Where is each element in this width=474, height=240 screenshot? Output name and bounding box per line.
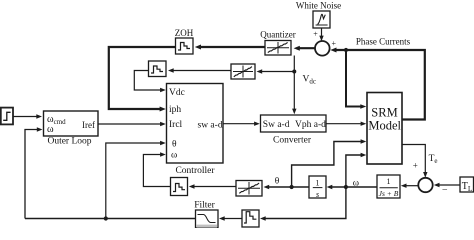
wire Filter to left bus — [25, 218, 196, 220]
junction Vdc tap — [292, 70, 296, 74]
svg-text:1: 1 — [316, 178, 320, 187]
svg-text:Outer Loop: Outer Loop — [47, 137, 91, 147]
svg-text:Js + B: Js + B — [379, 189, 399, 198]
wire bottom bus ZOH3 to Filter — [219, 216, 242, 220]
svg-text:Vdc: Vdc — [169, 88, 185, 98]
wire Q2 to ZOH2 — [168, 68, 231, 72]
wire theta staircase into SRM input3 — [292, 139, 367, 187]
svg-text:Vph a-d: Vph a-d — [295, 120, 326, 130]
wire Q1 to ZOH1 (thick) — [195, 45, 265, 50]
svg-text:sw a-d: sw a-d — [198, 121, 223, 131]
step source block — [1, 108, 13, 125]
wire sum2 to 1/(Js+B) — [401, 184, 419, 188]
block White Noise — [313, 11, 330, 28]
wire Converter Vph a-d to SRM — [326, 122, 366, 126]
wire SRM phase-current output loop (thick) — [330, 48, 425, 120]
svg-text:Phase Currents: Phase Currents — [356, 37, 411, 47]
svg-text:ω: ω — [353, 178, 359, 188]
wire omega up into SRM input4 — [346, 153, 366, 187]
svg-text:Controller: Controller — [175, 166, 215, 176]
svg-text:Sw a-d: Sw a-d — [263, 120, 290, 130]
svg-text:Converter: Converter — [273, 135, 312, 145]
wire step to Outer Loop — [13, 114, 42, 118]
block ZOH3 (bottom) — [242, 210, 259, 227]
svg-text:–: – — [442, 183, 448, 193]
svg-text:Quantizer: Quantizer — [260, 30, 295, 40]
junction bottom bus — [104, 216, 108, 220]
svg-text:ω: ω — [171, 150, 177, 160]
wire White Noise to sum1 — [319, 28, 323, 41]
block mechanical 1/(Js+B) — [377, 175, 400, 198]
junction theta — [290, 185, 294, 189]
svg-text:Iref: Iref — [82, 120, 95, 130]
sum junction S1 (noise + phase currents) — [315, 41, 330, 56]
junction omega — [344, 185, 348, 189]
wire Vdc tap vertical into Converter top — [292, 56, 296, 115]
svg-text:SRM: SRM — [371, 106, 397, 120]
block Quantizer Q1 (labeled) — [265, 41, 291, 56]
svg-text:1: 1 — [387, 177, 391, 186]
wire TL to sum2 — [434, 183, 460, 187]
wire Q3 to ZOH4 — [189, 184, 236, 188]
wire bottom bus up to Controller theta input — [106, 141, 166, 219]
svg-text:ZOH: ZOH — [175, 28, 194, 38]
block TL load torque — [460, 177, 474, 192]
block Filter — [196, 210, 219, 228]
wire theta from 1/s to Q3 — [264, 185, 310, 189]
block Quantizer Q2 (Vdc path) — [231, 64, 255, 79]
svg-text:Ircl: Ircl — [169, 120, 183, 130]
wire bottom feedback up to Outer Loop omega input — [25, 127, 43, 218]
block ZOH1 (top) — [176, 38, 194, 54]
wire phase currents branch into SRM input1 — [346, 50, 366, 109]
wire Iref to Ircl — [98, 122, 166, 126]
wire omega down to bottom bus — [260, 187, 346, 221]
block Converter — [261, 115, 327, 132]
block SRM Model — [367, 93, 402, 165]
block Quantizer Q3 (theta path) — [236, 181, 262, 197]
svg-text:White Noise: White Noise — [296, 1, 341, 11]
wire SRM Te output to sum2 — [402, 145, 428, 178]
sum junction S2 (Te - TL) — [418, 178, 432, 192]
wire ZOH2 to Controller Vdc input — [134, 71, 166, 93]
svg-text:θ: θ — [172, 140, 177, 150]
block ZOH4 (theta path) — [171, 178, 188, 196]
block integrator 1/s — [309, 176, 326, 198]
svg-text:Model: Model — [368, 119, 401, 133]
svg-text:s: s — [316, 190, 319, 199]
wire ZOH1 down to Controller iph input (thick) — [109, 47, 176, 112]
svg-text:ω: ω — [47, 124, 54, 135]
svg-text:θ: θ — [275, 176, 280, 186]
wire Vdc tap to Quantizer Q2 — [257, 69, 295, 73]
svg-text:Filter: Filter — [194, 200, 215, 210]
wire Controller sw a-d to Converter — [223, 122, 260, 126]
wire ZOH4 up to Controller omega input — [143, 152, 171, 186]
block Outer Loop — [44, 111, 99, 136]
svg-text:iph: iph — [169, 105, 181, 115]
svg-text:+: + — [332, 39, 337, 48]
svg-text:+: + — [313, 30, 318, 39]
svg-text:+: + — [413, 161, 418, 171]
block ZOH2 (mid, Vdc path) — [149, 61, 167, 77]
junction phase currents branch — [344, 48, 348, 52]
block Controller — [167, 84, 224, 164]
wire omega from 1/(Js+B) to integrator 1/s — [327, 185, 377, 189]
wire sum1 to Quantizer Q1 (thick) — [294, 46, 316, 51]
